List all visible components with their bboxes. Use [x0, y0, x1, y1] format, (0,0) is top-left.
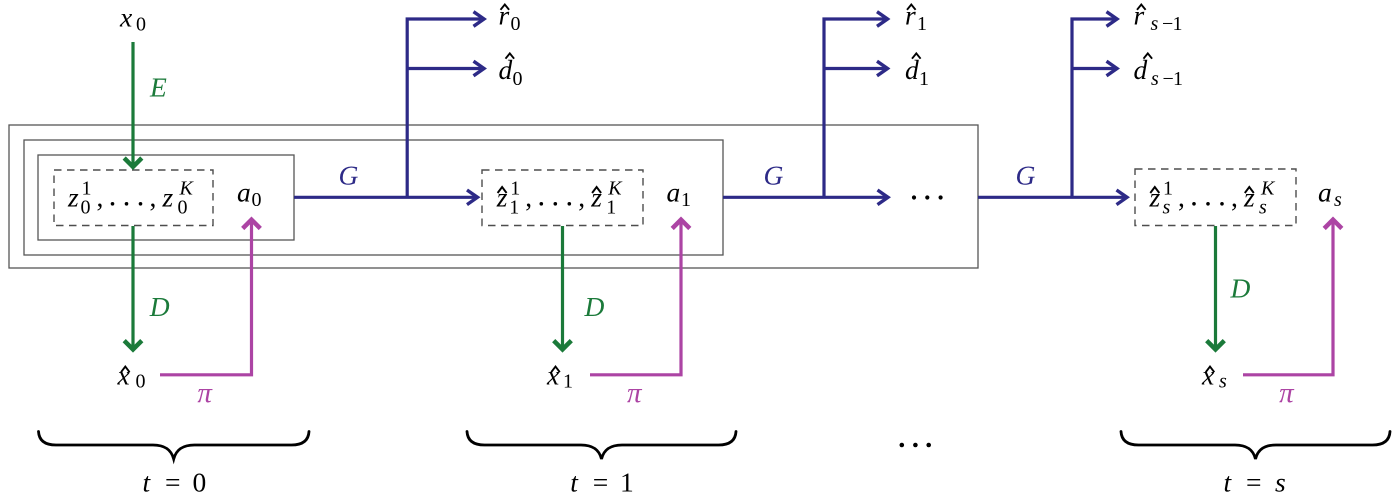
svg-text:D: D [584, 291, 605, 322]
svg-text:=: = [165, 467, 181, 498]
svg-text:,: , [1231, 182, 1238, 213]
svg-text:E: E [149, 72, 167, 103]
svg-text:π: π [197, 377, 213, 409]
dashed box z_0 [54, 170, 213, 226]
wire branch to dhat s-1 [1072, 67, 1114, 70]
svg-text:π: π [627, 377, 643, 409]
svg-text:s: s [1259, 196, 1267, 218]
svg-text:G: G [1016, 159, 1036, 190]
svg-text:0: 0 [81, 196, 91, 218]
svg-text:,: , [1178, 182, 1185, 213]
label t=0 [143, 467, 207, 498]
svg-text:r: r [1134, 0, 1145, 30]
dashed box z_1 [482, 170, 643, 226]
svg-text:t: t [570, 467, 579, 498]
arrow D t1 [554, 226, 572, 349]
svg-text:1: 1 [681, 189, 691, 211]
svg-text:z: z [67, 182, 79, 213]
arrowhead into dots [878, 190, 889, 205]
arrowhead dhat1 [877, 61, 888, 76]
arrowhead into zshat [1117, 190, 1128, 205]
svg-text:t: t [143, 467, 152, 498]
svg-text:s: s [1334, 189, 1342, 211]
svg-text:=: = [1246, 467, 1262, 498]
label rhat1 [905, 0, 927, 35]
svg-text:a: a [1318, 177, 1332, 208]
svg-text:D: D [1230, 273, 1251, 304]
label t=1 [570, 467, 633, 498]
svg-text:s: s [1219, 371, 1227, 393]
svg-text:G: G [339, 159, 359, 190]
svg-text:d: d [1134, 54, 1148, 85]
svg-text:x: x [1201, 360, 1214, 391]
arrow pi t1 [590, 220, 690, 375]
dots after G2 arrow [912, 195, 916, 199]
svg-text:1: 1 [509, 196, 519, 218]
wire G1 horizontal into z1hat [294, 196, 475, 199]
dashed box z_s [1135, 169, 1296, 226]
wire branch to dhat0 [407, 67, 481, 70]
svg-text:,: , [150, 182, 157, 213]
svg-text:G: G [764, 159, 784, 190]
svg-text:1: 1 [620, 467, 634, 498]
label xhats [1201, 360, 1227, 393]
svg-text:0: 0 [513, 68, 523, 90]
label zshat box content [1149, 178, 1277, 219]
dots bottom between braces [900, 443, 905, 448]
svg-text:a: a [237, 177, 251, 208]
arrow D ts [1207, 226, 1225, 349]
svg-text:π: π [1279, 377, 1295, 409]
label rhat s-1 [1134, 0, 1183, 35]
svg-text:t: t [1224, 467, 1233, 498]
wire G2 vertical + top branch to rhat1 [824, 19, 885, 197]
svg-text:0: 0 [136, 14, 146, 36]
label dhat s-1 [1134, 53, 1184, 90]
arrowhead rhat1 [877, 12, 888, 27]
svg-text:=: = [593, 467, 609, 498]
arrow E (green, x0 down into z0 box) [124, 42, 142, 167]
svg-text:1: 1 [917, 13, 927, 35]
svg-text:0: 0 [136, 371, 146, 393]
svg-text:1: 1 [1173, 68, 1183, 90]
G1 chain (navy) [294, 12, 484, 205]
outer box (rollout level 3) [9, 125, 978, 268]
svg-text:0: 0 [511, 13, 521, 35]
svg-text:,: , [525, 182, 532, 213]
middle box (rollout level 2) [24, 140, 723, 255]
arrow pi ts [1243, 220, 1342, 375]
arrow pi t0 (purple, xhat0 to a0) [160, 220, 260, 375]
G2 chain (navy) [723, 12, 888, 205]
wire G1 vertical + top branch to rhat0 [407, 19, 481, 197]
wire G2 horizontal into dots [723, 196, 885, 199]
svg-text:0: 0 [252, 189, 262, 211]
solid box around t=0 state [38, 155, 294, 240]
arrow D t0 (green, down to xhat0) [124, 226, 142, 349]
label xhat1 [546, 360, 573, 393]
brace t=1 [467, 432, 736, 460]
label xhat0 [117, 360, 146, 393]
arrowhead dhat s-1 [1107, 61, 1118, 76]
G3 chain (navy) [978, 12, 1127, 205]
label dhat0 [499, 53, 523, 90]
svg-text:s: s [1163, 196, 1171, 218]
svg-text:1: 1 [919, 68, 929, 90]
brace t=s [1121, 432, 1390, 460]
svg-text:x: x [119, 2, 132, 33]
svg-text:a: a [667, 177, 681, 208]
svg-text:1: 1 [1173, 13, 1183, 35]
wire G3 vertical + top branch to rhat s-1 [1072, 19, 1114, 197]
label t=s [1224, 467, 1286, 498]
wire G3 horizontal into zshat [978, 196, 1125, 199]
label z0 box content [67, 178, 195, 219]
svg-text:,: , [97, 182, 104, 213]
arrowhead dhat0 [474, 61, 485, 76]
arrowhead rhat0 [474, 12, 485, 27]
svg-text:x: x [117, 360, 130, 391]
svg-text:1: 1 [563, 371, 573, 393]
wire branch to dhat1 [824, 67, 885, 70]
label z1hat box content [496, 178, 624, 219]
label rhat0 [499, 0, 521, 35]
brace t=0 [39, 432, 310, 460]
svg-text:0: 0 [193, 467, 207, 498]
svg-text:s: s [1275, 467, 1286, 498]
svg-text:0: 0 [178, 196, 188, 218]
svg-text:s: s [1151, 68, 1159, 90]
svg-text:z: z [162, 182, 174, 213]
arrowhead into z1hat [467, 190, 478, 205]
svg-text:x: x [546, 360, 559, 391]
svg-text:D: D [149, 291, 170, 322]
svg-text:1: 1 [606, 196, 616, 218]
arrowhead rhat s-1 [1107, 12, 1118, 27]
label dhat1 [905, 53, 929, 90]
svg-text:,: , [578, 182, 585, 213]
svg-text:s: s [1151, 13, 1159, 35]
